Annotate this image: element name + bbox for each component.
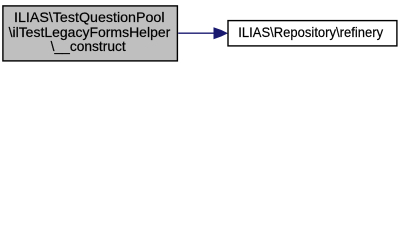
svg-text:\__construct: \__construct [51,39,126,54]
svg-text:ILIAS\TestQuestionPool: ILIAS\TestQuestionPool [14,10,165,25]
svg-text:ILIAS\Repository\refinery: ILIAS\Repository\refinery [238,24,383,40]
svg-text:\ilTestLegacyFormsHelper: \ilTestLegacyFormsHelper [9,25,171,40]
